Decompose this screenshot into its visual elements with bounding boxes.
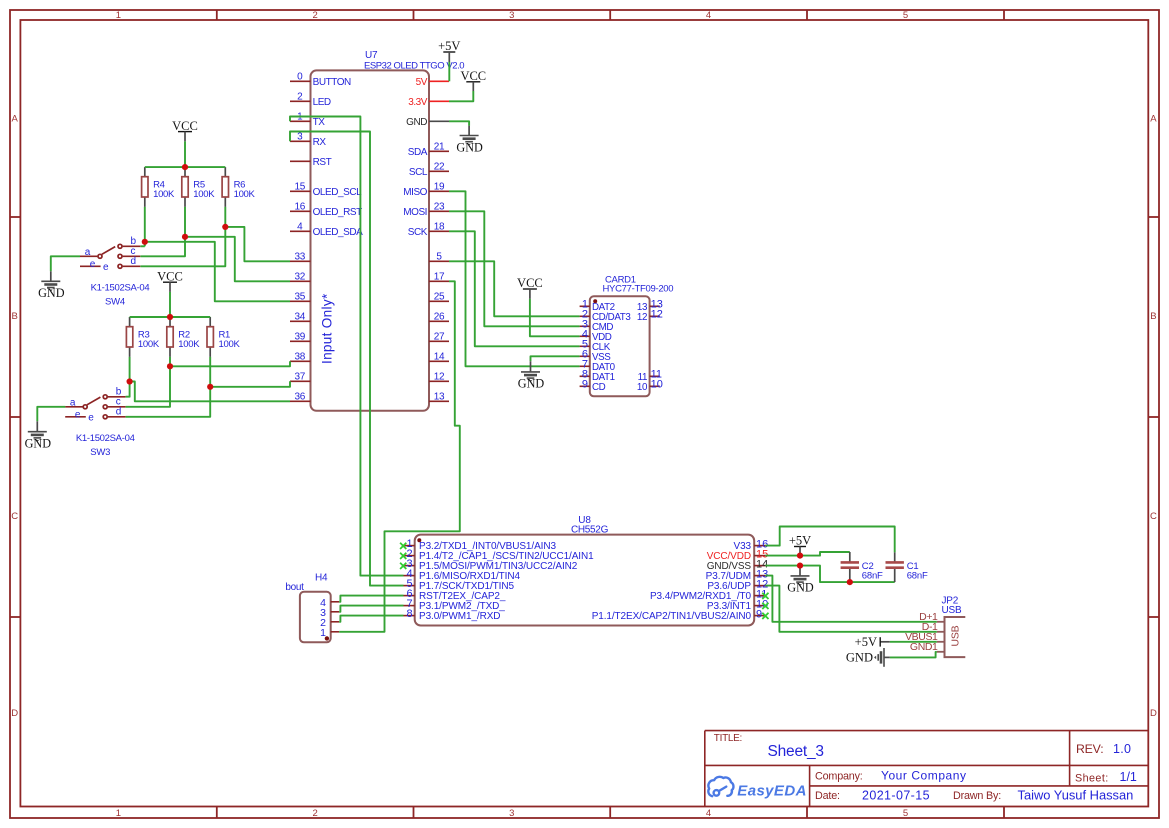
svg-text:Company:: Company: <box>815 771 863 783</box>
svg-text:5: 5 <box>903 10 908 21</box>
svg-text:9: 9 <box>582 379 588 391</box>
svg-text:16: 16 <box>295 202 306 213</box>
svg-text:Sheet:: Sheet: <box>1075 773 1109 785</box>
svg-text:35: 35 <box>295 292 306 303</box>
svg-text:Taiwo Yusuf Hassan: Taiwo Yusuf Hassan <box>1018 788 1134 803</box>
svg-text:e: e <box>90 259 96 270</box>
svg-text:39: 39 <box>295 332 306 343</box>
svg-text:3: 3 <box>297 132 303 143</box>
svg-text:18: 18 <box>434 222 445 233</box>
svg-text:1/1: 1/1 <box>1120 770 1137 784</box>
svg-text:19: 19 <box>434 182 445 193</box>
svg-text:+5V: +5V <box>789 534 811 548</box>
svg-text:GND1: GND1 <box>910 641 938 653</box>
svg-text:68nF: 68nF <box>862 571 883 582</box>
svg-text:SW3: SW3 <box>90 447 110 458</box>
svg-text:1: 1 <box>116 808 121 819</box>
svg-text:VCC: VCC <box>172 119 198 133</box>
svg-text:5: 5 <box>903 808 908 819</box>
svg-text:1.0: 1.0 <box>1113 742 1131 756</box>
svg-text:e: e <box>103 262 109 273</box>
svg-text:22: 22 <box>434 162 445 173</box>
svg-text:A: A <box>1150 114 1157 125</box>
svg-text:a: a <box>70 398 76 409</box>
svg-text:26: 26 <box>434 312 445 323</box>
svg-text:34: 34 <box>295 312 306 323</box>
svg-text:100K: 100K <box>193 189 215 200</box>
svg-text:25: 25 <box>434 292 445 303</box>
svg-text:e: e <box>75 409 81 420</box>
svg-text:REV:: REV: <box>1076 742 1103 756</box>
svg-text:P1.1/T2EX/CAP2/TIN1/VBUS2/AIN0: P1.1/T2EX/CAP2/TIN1/VBUS2/AIN0 <box>592 611 752 622</box>
svg-text:LED: LED <box>313 97 331 108</box>
svg-text:12: 12 <box>434 372 445 383</box>
svg-text:U7: U7 <box>365 50 378 61</box>
svg-text:3: 3 <box>509 10 514 21</box>
svg-text:GND: GND <box>25 437 52 451</box>
svg-text:21: 21 <box>434 142 445 153</box>
svg-text:d: d <box>116 406 122 417</box>
svg-text:37: 37 <box>295 372 306 383</box>
svg-text:Your Company: Your Company <box>881 769 967 783</box>
svg-text:Drawn By:: Drawn By: <box>953 790 1001 802</box>
svg-text:EasyEDA: EasyEDA <box>737 782 807 799</box>
svg-text:SW4: SW4 <box>105 297 125 308</box>
svg-text:VCC: VCC <box>460 69 486 83</box>
svg-text:Sheet_3: Sheet_3 <box>768 743 824 760</box>
svg-text:38: 38 <box>295 352 306 363</box>
svg-text:K1-1502SA-04: K1-1502SA-04 <box>91 283 150 294</box>
svg-text:10: 10 <box>637 382 648 393</box>
svg-text:8: 8 <box>406 608 412 620</box>
svg-text:SDA: SDA <box>408 147 428 158</box>
svg-text:100K: 100K <box>153 189 175 200</box>
svg-text:GND: GND <box>456 140 483 154</box>
svg-text:100K: 100K <box>138 339 160 350</box>
svg-text:A: A <box>12 114 19 125</box>
svg-text:14: 14 <box>434 352 445 363</box>
svg-text:MISO: MISO <box>403 187 427 198</box>
svg-text:1: 1 <box>116 10 121 21</box>
svg-text:100K: 100K <box>178 339 200 350</box>
svg-text:17: 17 <box>434 272 445 283</box>
svg-text:B: B <box>1150 311 1156 322</box>
svg-text:Input Only*: Input Only* <box>320 293 335 364</box>
svg-text:10: 10 <box>651 379 663 391</box>
svg-text:TITLE:: TITLE: <box>714 733 742 744</box>
svg-text:2021-07-15: 2021-07-15 <box>862 789 930 803</box>
svg-text:GND: GND <box>846 651 873 665</box>
svg-text:RX: RX <box>313 137 327 148</box>
svg-text:VCC: VCC <box>517 276 543 290</box>
svg-text:a: a <box>85 247 91 258</box>
svg-text:3.3V: 3.3V <box>408 97 428 108</box>
svg-text:bout: bout <box>285 582 304 593</box>
svg-text:MOSI: MOSI <box>403 207 427 218</box>
svg-text:SCK: SCK <box>408 227 428 238</box>
svg-text:5: 5 <box>436 252 442 263</box>
svg-text:27: 27 <box>434 332 445 343</box>
svg-text:4: 4 <box>706 808 711 819</box>
svg-text:2: 2 <box>297 92 303 103</box>
svg-text:CH552G: CH552G <box>571 525 609 536</box>
svg-text:36: 36 <box>295 392 306 403</box>
svg-text:H4: H4 <box>315 573 328 584</box>
svg-text:33: 33 <box>295 252 306 263</box>
svg-text:OLED_SCL: OLED_SCL <box>313 187 363 198</box>
svg-text:HYC77-TF09-200: HYC77-TF09-200 <box>603 284 674 295</box>
svg-text:2: 2 <box>313 808 318 819</box>
svg-text:e: e <box>88 413 94 424</box>
svg-text:TX: TX <box>313 117 326 128</box>
svg-text:BUTTON: BUTTON <box>313 77 351 88</box>
svg-text:C: C <box>11 511 18 522</box>
svg-text:OLED_SDA: OLED_SDA <box>313 227 364 238</box>
svg-text:GND: GND <box>38 286 65 300</box>
svg-text:Date:: Date: <box>815 790 840 802</box>
svg-text:4: 4 <box>706 10 711 21</box>
svg-text:K1-1502SA-04: K1-1502SA-04 <box>76 433 135 444</box>
svg-text:9: 9 <box>756 608 762 620</box>
svg-text:12: 12 <box>651 309 663 321</box>
svg-text:68nF: 68nF <box>907 571 928 582</box>
svg-text:15: 15 <box>295 182 306 193</box>
svg-text:13: 13 <box>434 392 445 403</box>
svg-text:3: 3 <box>509 808 514 819</box>
svg-text:100K: 100K <box>234 189 256 200</box>
svg-text:2: 2 <box>313 10 318 21</box>
svg-text:D: D <box>1150 708 1157 719</box>
svg-text:+5V: +5V <box>438 39 460 53</box>
svg-text:RST: RST <box>313 157 332 168</box>
svg-text:C: C <box>1150 511 1157 522</box>
svg-text:GND: GND <box>406 117 427 128</box>
svg-text:d: d <box>131 256 137 267</box>
svg-text:GND: GND <box>787 581 814 595</box>
svg-text:SCL: SCL <box>409 167 428 178</box>
svg-text:4: 4 <box>297 222 303 233</box>
svg-text:B: B <box>12 311 18 322</box>
svg-text:USB: USB <box>942 605 962 616</box>
svg-text:GND: GND <box>518 377 545 391</box>
svg-text:P3.0/PWM1_/RXD: P3.0/PWM1_/RXD <box>419 611 500 622</box>
svg-text:VCC: VCC <box>157 269 183 283</box>
svg-text:100K: 100K <box>219 339 241 350</box>
svg-text:23: 23 <box>434 202 445 213</box>
svg-text:0: 0 <box>297 72 303 83</box>
svg-text:12: 12 <box>637 312 647 323</box>
svg-text:5V: 5V <box>416 77 428 88</box>
svg-text:USB: USB <box>950 625 962 646</box>
svg-text:D: D <box>11 708 18 719</box>
svg-text:+5V: +5V <box>855 635 877 649</box>
svg-text:32: 32 <box>295 272 306 283</box>
svg-text:OLED_RST: OLED_RST <box>313 207 363 218</box>
svg-text:CD: CD <box>592 382 606 393</box>
